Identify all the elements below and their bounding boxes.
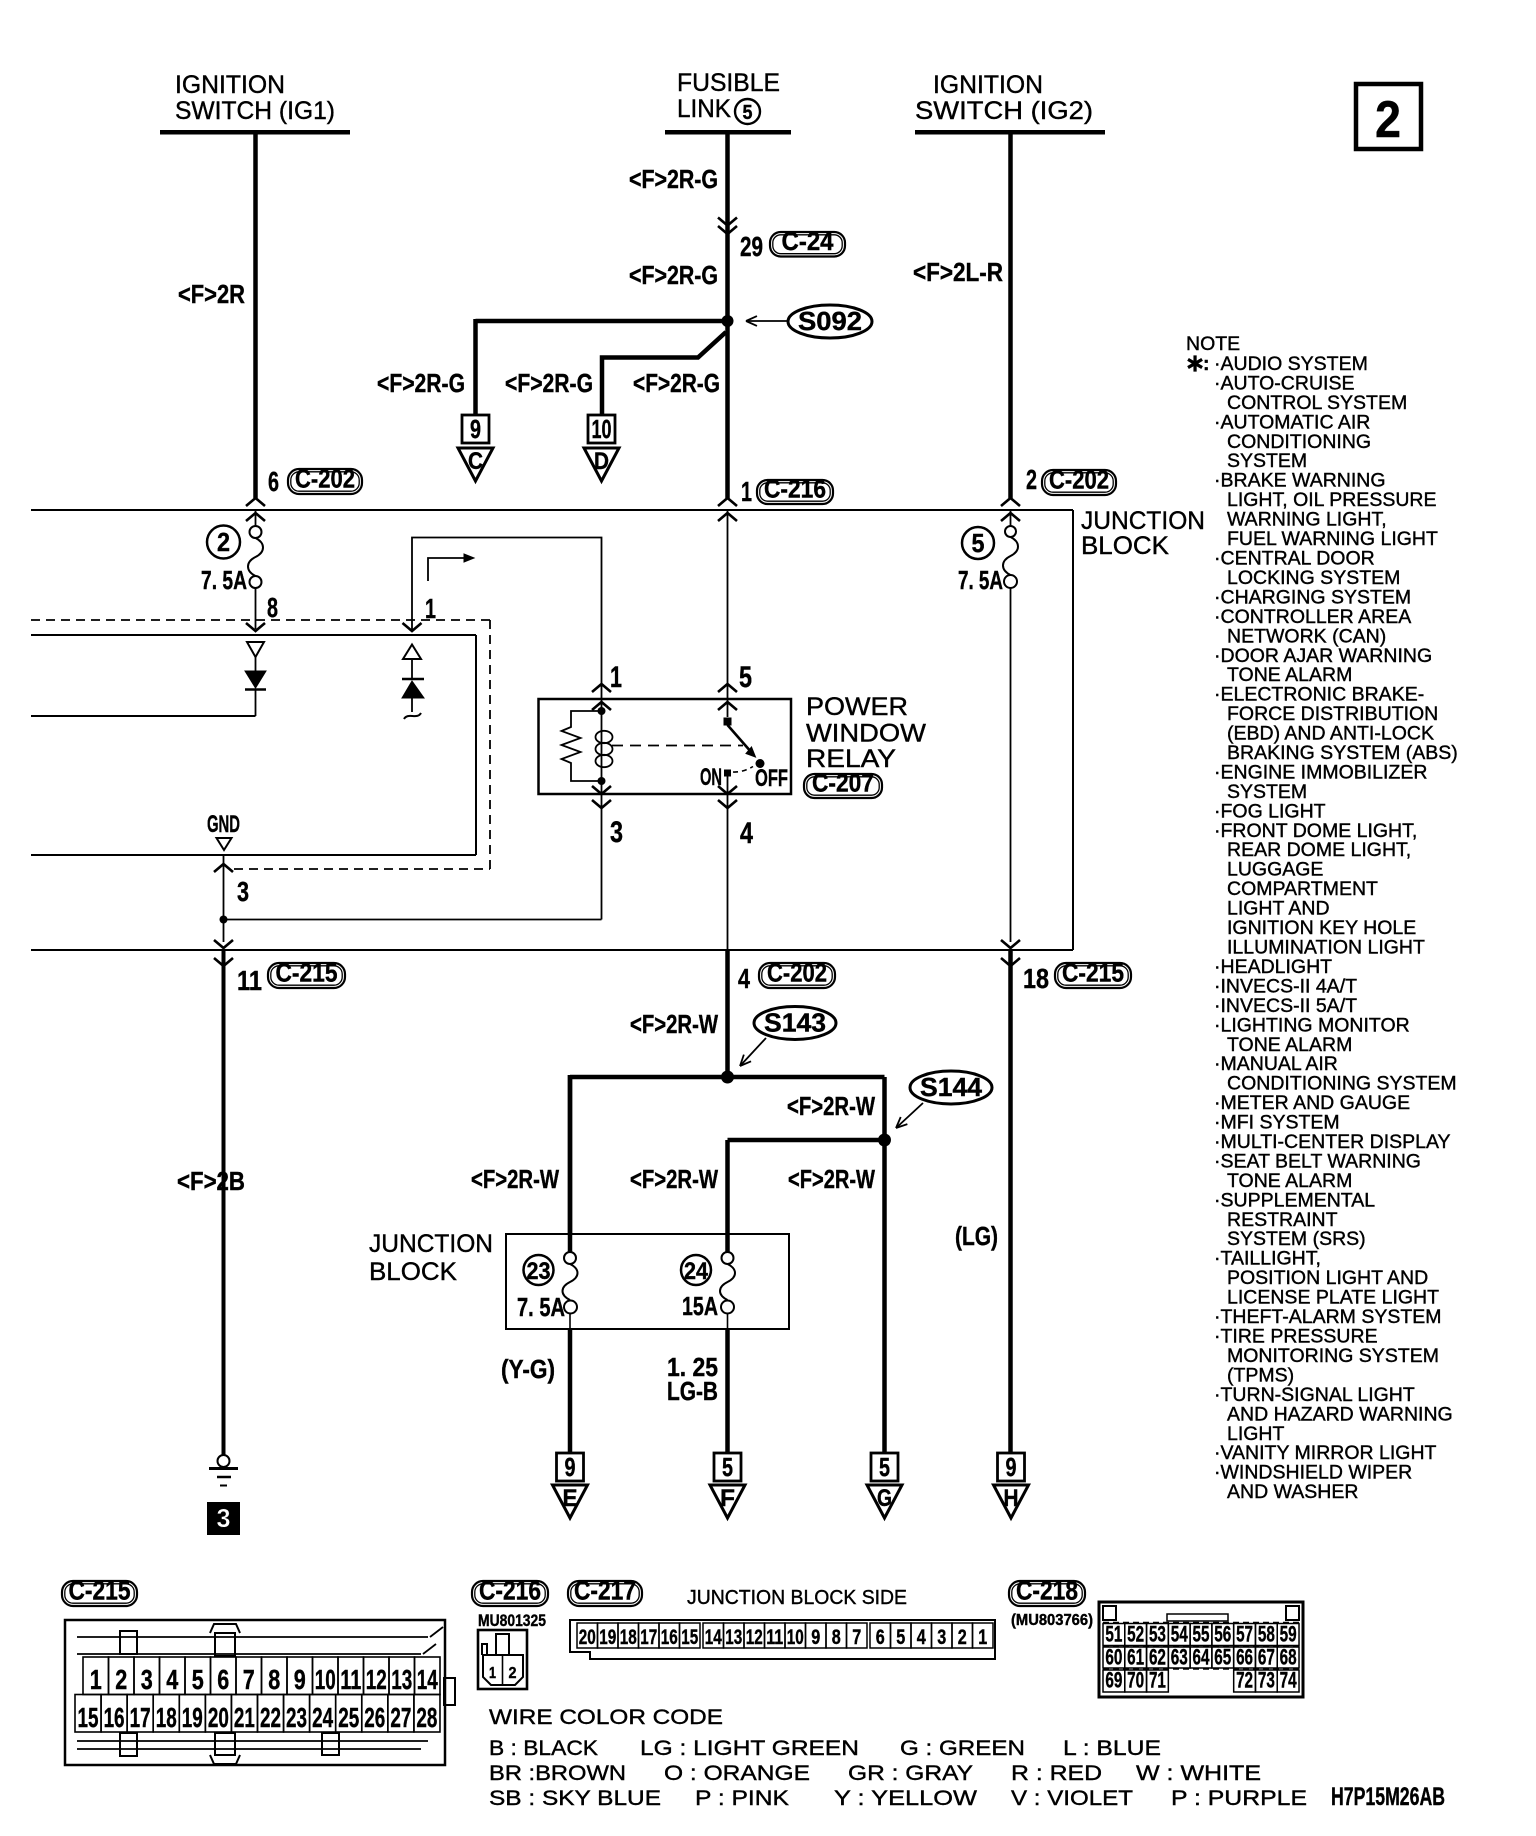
svg-text:17: 17 (640, 1626, 657, 1649)
svg-text:<F>2B: <F>2B (177, 1166, 245, 1196)
svg-text:C-217: C-217 (574, 1576, 636, 1606)
svg-text:6: 6 (217, 1664, 229, 1695)
svg-text:66: 66 (1236, 1645, 1253, 1670)
svg-text:(LG): (LG) (955, 1221, 998, 1251)
svg-text:60: 60 (1105, 1645, 1122, 1670)
svg-text:9: 9 (1006, 1452, 1017, 1482)
svg-text:H: H (1004, 1485, 1019, 1512)
svg-text:R : RED: R : RED (1011, 1761, 1102, 1785)
svg-text:18: 18 (156, 1702, 177, 1733)
svg-text:64: 64 (1193, 1645, 1211, 1670)
svg-text:G : GREEN: G : GREEN (900, 1736, 1025, 1760)
svg-text:4: 4 (166, 1664, 178, 1695)
svg-text:15A: 15A (682, 1291, 718, 1321)
svg-text:7: 7 (852, 1626, 861, 1649)
svg-text:3: 3 (237, 876, 249, 907)
svg-text:WIRE COLOR CODE: WIRE COLOR CODE (489, 1705, 723, 1729)
svg-text:65: 65 (1214, 1645, 1231, 1670)
svg-text:C-215: C-215 (276, 958, 338, 988)
svg-text:15: 15 (78, 1702, 99, 1733)
svg-text:22: 22 (260, 1702, 281, 1733)
svg-text:6: 6 (876, 1626, 885, 1649)
svg-text:2: 2 (509, 1665, 517, 1682)
svg-text:69: 69 (1105, 1668, 1122, 1693)
svg-text:B : BLACK: B : BLACK (489, 1736, 599, 1760)
svg-text:7: 7 (243, 1664, 255, 1695)
svg-text:3: 3 (217, 1503, 231, 1533)
svg-text:C-24: C-24 (782, 226, 834, 256)
svg-text:14: 14 (417, 1664, 438, 1695)
svg-text:9: 9 (470, 414, 481, 444)
svg-text:8: 8 (268, 1664, 280, 1695)
svg-text:24: 24 (312, 1702, 333, 1733)
svg-text:<F>2R-W: <F>2R-W (787, 1091, 875, 1121)
svg-text:11: 11 (237, 965, 262, 996)
svg-text:FUSIBLE: FUSIBLE (677, 69, 780, 97)
svg-text:<F>2R-W: <F>2R-W (630, 1164, 718, 1194)
svg-text:8: 8 (267, 592, 278, 623)
svg-text:<F>2R-G: <F>2R-G (633, 368, 720, 398)
svg-text:BR :BROWN: BR :BROWN (489, 1761, 626, 1785)
svg-text:P : PURPLE: P : PURPLE (1171, 1786, 1307, 1810)
svg-text:GND: GND (207, 811, 240, 838)
svg-text:12: 12 (366, 1664, 387, 1695)
svg-text:23: 23 (527, 1258, 551, 1285)
svg-text::: : (1203, 353, 1210, 375)
svg-text:C-202: C-202 (295, 464, 355, 494)
svg-text:63: 63 (1171, 1645, 1188, 1670)
svg-text:L : BLUE: L : BLUE (1063, 1736, 1161, 1760)
svg-text:14: 14 (705, 1626, 722, 1649)
svg-text:52: 52 (1127, 1622, 1144, 1647)
svg-text:12: 12 (746, 1626, 763, 1649)
svg-text:54: 54 (1171, 1622, 1189, 1647)
svg-text:E: E (563, 1485, 578, 1512)
svg-text:9: 9 (294, 1664, 306, 1695)
svg-text:18: 18 (620, 1626, 637, 1649)
svg-text:JUNCTION: JUNCTION (1081, 507, 1205, 535)
svg-text:28: 28 (416, 1702, 437, 1733)
svg-text:27: 27 (390, 1702, 411, 1733)
svg-text:5: 5 (739, 661, 752, 694)
svg-text:13: 13 (725, 1626, 742, 1649)
svg-text:C-216: C-216 (764, 474, 826, 504)
svg-text:<F>2R-G: <F>2R-G (629, 260, 718, 290)
svg-text:WINDOW: WINDOW (806, 720, 926, 748)
svg-text:<F>2R-W: <F>2R-W (788, 1164, 875, 1194)
svg-text:5: 5 (743, 102, 753, 124)
svg-text:1: 1 (741, 476, 752, 507)
svg-text:1: 1 (978, 1626, 987, 1649)
svg-text:74: 74 (1280, 1668, 1298, 1693)
svg-text:9: 9 (565, 1452, 576, 1482)
svg-text:C-218: C-218 (1016, 1576, 1078, 1606)
svg-text:C-207: C-207 (812, 768, 874, 798)
svg-text:F: F (720, 1485, 735, 1512)
svg-text:POWER: POWER (806, 693, 908, 721)
svg-text:5: 5 (896, 1626, 905, 1649)
svg-text:P : PINK: P : PINK (695, 1786, 790, 1810)
svg-text:57: 57 (1236, 1622, 1253, 1647)
svg-text:2: 2 (217, 527, 230, 557)
svg-text:7. 5A: 7. 5A (517, 1292, 565, 1322)
svg-text:3: 3 (937, 1626, 946, 1649)
svg-text:70: 70 (1127, 1668, 1144, 1693)
svg-text:7. 5A: 7. 5A (201, 565, 247, 595)
svg-text:OFF: OFF (755, 765, 788, 792)
svg-text:13: 13 (391, 1664, 412, 1695)
svg-text:C: C (468, 448, 483, 475)
svg-text:72: 72 (1236, 1668, 1253, 1693)
svg-text:61: 61 (1127, 1645, 1144, 1670)
svg-text:23: 23 (286, 1702, 307, 1733)
svg-text:19: 19 (182, 1702, 203, 1733)
svg-text:20: 20 (208, 1702, 229, 1733)
svg-text:SB : SKY BLUE: SB : SKY BLUE (489, 1786, 661, 1810)
svg-text:JUNCTION: JUNCTION (369, 1230, 493, 1258)
svg-text:C-202: C-202 (1049, 465, 1109, 495)
svg-text:5: 5 (972, 528, 985, 558)
svg-text:8: 8 (832, 1626, 841, 1649)
svg-text:20: 20 (579, 1626, 596, 1649)
svg-text:7. 5A: 7. 5A (958, 565, 1003, 595)
svg-text:S092: S092 (798, 306, 862, 336)
svg-text:MU801325: MU801325 (478, 1611, 546, 1630)
svg-text:19: 19 (599, 1626, 616, 1649)
svg-text:1: 1 (90, 1664, 102, 1695)
svg-text:(MU803766): (MU803766) (1011, 1612, 1093, 1629)
svg-text:S143: S143 (764, 1008, 826, 1038)
svg-text:58: 58 (1258, 1622, 1275, 1647)
svg-text:SWITCH (IG1): SWITCH (IG1) (175, 97, 335, 125)
svg-text:S144: S144 (920, 1072, 983, 1102)
svg-text:2: 2 (1375, 91, 1401, 149)
svg-text:<F>2R-W: <F>2R-W (471, 1164, 559, 1194)
svg-text:17: 17 (130, 1702, 151, 1733)
svg-text:62: 62 (1149, 1645, 1166, 1670)
svg-text:<F>2L-R: <F>2L-R (913, 257, 1003, 287)
svg-text:29: 29 (740, 231, 763, 262)
svg-text:3: 3 (141, 1664, 153, 1695)
svg-text:GR : GRAY: GR : GRAY (848, 1761, 973, 1785)
svg-text:O : ORANGE: O : ORANGE (664, 1761, 810, 1785)
svg-text:D: D (594, 448, 609, 475)
svg-text:W : WHITE: W : WHITE (1136, 1761, 1261, 1785)
svg-text:10: 10 (315, 1664, 336, 1695)
svg-text:21: 21 (234, 1702, 255, 1733)
svg-text:67: 67 (1258, 1645, 1275, 1670)
svg-text:51: 51 (1105, 1622, 1122, 1647)
svg-text:<F>2R-W: <F>2R-W (630, 1009, 718, 1039)
svg-text:IGNITION: IGNITION (933, 71, 1043, 99)
svg-text:5: 5 (192, 1664, 204, 1695)
svg-text:SWITCH (IG2): SWITCH (IG2) (915, 97, 1093, 125)
svg-text:4: 4 (740, 817, 753, 850)
svg-text:59: 59 (1280, 1622, 1297, 1647)
svg-text:24: 24 (684, 1258, 709, 1285)
svg-text:26: 26 (364, 1702, 385, 1733)
svg-text:4: 4 (738, 963, 750, 994)
svg-text:LINK: LINK (677, 95, 731, 123)
svg-text:<F>2R-G: <F>2R-G (505, 368, 593, 398)
svg-text:15: 15 (681, 1626, 698, 1649)
svg-text:5: 5 (722, 1452, 733, 1482)
svg-text:55: 55 (1193, 1622, 1210, 1647)
svg-text:<F>2R-G: <F>2R-G (629, 164, 718, 194)
svg-text:9: 9 (811, 1626, 820, 1649)
svg-text:53: 53 (1149, 1622, 1166, 1647)
svg-text:G: G (877, 1485, 892, 1512)
svg-text:V : VIOLET: V : VIOLET (1011, 1786, 1133, 1810)
svg-text:3: 3 (610, 816, 623, 849)
svg-text:C-215: C-215 (1062, 958, 1124, 988)
svg-text:C-216: C-216 (479, 1576, 541, 1606)
svg-text:71: 71 (1149, 1668, 1166, 1693)
svg-text:68: 68 (1280, 1645, 1297, 1670)
svg-text:IGNITION: IGNITION (175, 71, 285, 99)
svg-text:2: 2 (1026, 464, 1037, 495)
svg-text:73: 73 (1258, 1668, 1275, 1693)
svg-text:16: 16 (104, 1702, 125, 1733)
svg-text:16: 16 (661, 1626, 678, 1649)
svg-text:11: 11 (766, 1626, 783, 1649)
svg-text:11: 11 (340, 1664, 361, 1695)
svg-text:1: 1 (489, 1665, 496, 1682)
svg-text:1: 1 (610, 661, 622, 694)
svg-text:6: 6 (268, 466, 279, 497)
svg-text:C-202: C-202 (767, 958, 827, 988)
svg-text:<F>2R-G: <F>2R-G (377, 368, 465, 398)
svg-text:AND WASHER: AND WASHER (1227, 1481, 1358, 1503)
svg-text:LG : LIGHT GREEN: LG : LIGHT GREEN (640, 1736, 859, 1760)
svg-text:10: 10 (592, 414, 612, 444)
svg-text:C-215: C-215 (69, 1576, 131, 1606)
svg-text:BLOCK: BLOCK (369, 1258, 457, 1286)
svg-text:4: 4 (917, 1626, 926, 1649)
svg-text:H7P15M26AB: H7P15M26AB (1331, 1783, 1445, 1811)
svg-text:10: 10 (787, 1626, 804, 1649)
svg-text:25: 25 (338, 1702, 359, 1733)
svg-text:2: 2 (958, 1626, 967, 1649)
svg-text:5: 5 (879, 1452, 890, 1482)
svg-text:(Y-G): (Y-G) (501, 1354, 555, 1384)
svg-text:Y : YELLOW: Y : YELLOW (834, 1786, 978, 1810)
svg-text:LG-B: LG-B (667, 1376, 718, 1406)
svg-text:2: 2 (115, 1664, 127, 1695)
svg-text:56: 56 (1214, 1622, 1231, 1647)
svg-text:BLOCK: BLOCK (1081, 532, 1169, 560)
svg-text:JUNCTION BLOCK SIDE: JUNCTION BLOCK SIDE (687, 1587, 907, 1609)
svg-text:18: 18 (1023, 963, 1049, 994)
svg-text:<F>2R: <F>2R (178, 279, 245, 309)
